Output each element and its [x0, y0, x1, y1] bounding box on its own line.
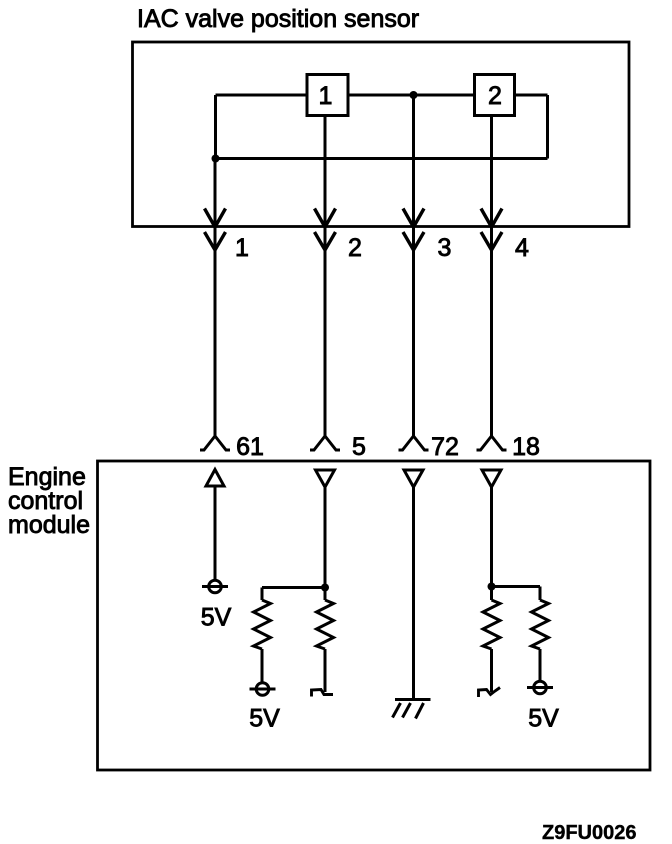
svg-text:module: module	[8, 511, 90, 539]
svg-text:2: 2	[348, 234, 362, 262]
svg-text:18: 18	[512, 433, 540, 461]
svg-text:61: 61	[236, 433, 264, 461]
svg-text:2: 2	[488, 82, 502, 110]
svg-text:Z9FU0026: Z9FU0026	[542, 822, 637, 844]
svg-text:5V: 5V	[528, 705, 559, 733]
svg-text:5: 5	[352, 433, 366, 461]
svg-text:3: 3	[438, 234, 452, 262]
svg-text:1: 1	[235, 234, 249, 262]
svg-text:1: 1	[319, 82, 333, 110]
svg-text:4: 4	[515, 234, 529, 262]
svg-text:5V: 5V	[201, 604, 232, 632]
svg-text:5V: 5V	[249, 705, 280, 733]
svg-text:72: 72	[431, 433, 459, 461]
svg-text:IAC valve position sensor: IAC valve position sensor	[137, 5, 419, 33]
